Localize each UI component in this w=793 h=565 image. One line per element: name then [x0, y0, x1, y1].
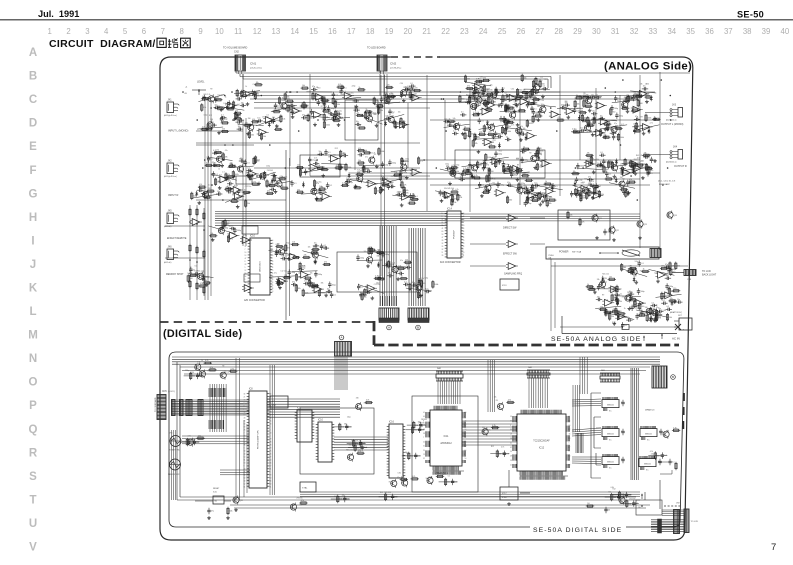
- capacitor C206: [667, 266, 675, 272]
- transistor Q61: [402, 478, 408, 487]
- svg-text:G: G: [29, 188, 38, 200]
- svg-text:47p: 47p: [212, 162, 215, 164]
- wire out R: [645, 154, 664, 156]
- capacitor C228: [651, 302, 657, 307]
- svg-text:47: 47: [245, 258, 247, 260]
- svg-text:11: 11: [442, 252, 444, 254]
- resistor R331: [602, 134, 610, 138]
- svg-text:0.1: 0.1: [481, 121, 484, 123]
- labels: [382, 173, 398, 180]
- capacitor C153: [615, 113, 623, 119]
- resistor R4: [234, 110, 242, 114]
- labels: [351, 440, 361, 443]
- wire: [305, 292, 331, 295]
- resistor R377: [196, 435, 204, 439]
- svg-text:100p: 100p: [576, 110, 580, 112]
- DIP DRAM SC4: [602, 397, 625, 413]
- wire: [392, 195, 418, 199]
- capacitor C252: [520, 131, 526, 136]
- svg-text:1k: 1k: [516, 167, 518, 169]
- svg-text:60: 60: [569, 456, 571, 458]
- wire cn4 drop: [335, 357, 347, 390]
- svg-text:10k: 10k: [493, 160, 496, 162]
- capacitor C240: [573, 108, 581, 114]
- svg-text:17: 17: [569, 447, 571, 449]
- transistor Q23: [637, 220, 647, 229]
- fuse cross: [675, 324, 681, 330]
- resistor R275: [660, 266, 668, 270]
- resistor R227: [198, 283, 206, 287]
- svg-text:10k: 10k: [256, 82, 259, 84]
- svg-text:560: 560: [672, 272, 675, 274]
- capacitor C104: [481, 87, 489, 93]
- svg-text:26: 26: [465, 420, 467, 422]
- svg-text:12: 12: [245, 285, 247, 287]
- svg-text:4.7k: 4.7k: [451, 165, 454, 167]
- capacitor C69: [342, 152, 348, 157]
- wire: [266, 181, 292, 185]
- svg-text:AC IN: AC IN: [672, 337, 680, 341]
- transistor Q37: [312, 250, 318, 259]
- capacitor C7: [291, 109, 297, 115]
- capacitor C75: [308, 157, 314, 163]
- svg-text:100p: 100p: [635, 261, 639, 263]
- capacitor C253: [551, 183, 557, 189]
- resistor R62: [579, 218, 585, 226]
- svg-text:2SC945: 2SC945: [296, 498, 302, 500]
- ground: [419, 294, 423, 298]
- wire cpu around bus: [270, 365, 274, 495]
- svg-text:220: 220: [661, 266, 664, 268]
- svg-text:4.7k: 4.7k: [314, 158, 317, 160]
- resistor R10: [286, 98, 294, 102]
- svg-text:C12 10u: C12 10u: [335, 111, 341, 113]
- svg-text:560: 560: [376, 101, 379, 103]
- svg-text:47p: 47p: [230, 162, 233, 164]
- ground: [613, 175, 617, 179]
- svg-text:10k: 10k: [380, 110, 383, 112]
- svg-text:4.7k: 4.7k: [621, 187, 624, 189]
- svg-text:10u: 10u: [591, 94, 594, 96]
- svg-text:1k: 1k: [313, 246, 315, 248]
- capacitor C189: [291, 282, 297, 287]
- labels: [597, 119, 615, 123]
- resistor R36: [378, 106, 384, 114]
- svg-text:220p: 220p: [456, 165, 460, 167]
- labels: [334, 495, 344, 498]
- wire: [301, 168, 327, 173]
- svg-text:X'TAL: X'TAL: [302, 487, 308, 490]
- svg-text:40: 40: [465, 441, 467, 443]
- resistor R199: [633, 128, 641, 132]
- svg-text:2SC945: 2SC945: [419, 422, 425, 424]
- wire: [238, 124, 264, 125]
- svg-text:0.1: 0.1: [534, 188, 537, 190]
- transistor Q22: [609, 226, 619, 235]
- capacitor C257: [620, 166, 626, 171]
- svg-text:R9: R9: [496, 400, 498, 402]
- transistor Q40: [416, 283, 422, 292]
- resistor R375: [385, 493, 391, 501]
- capacitor C79: [399, 169, 407, 175]
- wire: [507, 186, 533, 191]
- capacitor C102: [504, 104, 510, 109]
- svg-text:330: 330: [667, 294, 670, 296]
- connector CN4 from analog: [335, 342, 352, 357]
- op-amp IC3: [290, 108, 302, 115]
- svg-text:10k: 10k: [317, 165, 320, 167]
- op-amp IC19: [320, 193, 332, 200]
- resistor R329: [607, 123, 613, 131]
- wire horizontal run: [196, 199, 286, 201]
- svg-text:6.8k: 6.8k: [382, 97, 385, 99]
- ground: [604, 310, 608, 314]
- svg-text:0.1: 0.1: [501, 161, 504, 163]
- svg-text:10u: 10u: [217, 191, 220, 193]
- svg-text:56k: 56k: [364, 251, 367, 253]
- capacitor C122: [520, 149, 526, 154]
- svg-text:0.1: 0.1: [344, 87, 347, 89]
- ground: [219, 108, 223, 112]
- svg-text:10k: 10k: [584, 118, 587, 120]
- labels: [197, 360, 203, 364]
- diode D16: [648, 128, 651, 134]
- ground: [354, 184, 358, 188]
- svg-text:R45 2.2k: R45 2.2k: [469, 165, 476, 167]
- resistor R100: [316, 165, 324, 169]
- ground: [626, 192, 630, 196]
- capacitor C28: [311, 86, 317, 91]
- diode D31: [671, 300, 674, 306]
- wire qfp12 right bundle: [573, 385, 580, 432]
- svg-text:33k: 33k: [444, 188, 447, 190]
- capacitor C237: [473, 89, 479, 95]
- resistor R149: [466, 86, 474, 90]
- labels: [486, 121, 494, 127]
- ground: [461, 132, 465, 136]
- svg-text:47u: 47u: [451, 121, 454, 123]
- svg-text:42: 42: [465, 425, 467, 427]
- resistor R268: [432, 280, 439, 288]
- svg-text:0.1: 0.1: [540, 77, 542, 79]
- svg-text:7: 7: [272, 252, 273, 254]
- capacitor C151: [591, 111, 597, 116]
- svg-text:330: 330: [565, 101, 568, 103]
- transistor Q57: [497, 402, 503, 411]
- resistor R368: [618, 491, 624, 499]
- svg-text:330: 330: [356, 398, 359, 400]
- resistor R166: [477, 161, 483, 169]
- labels: [620, 292, 633, 298]
- op-amp IC13: [247, 171, 259, 178]
- svg-text:100p: 100p: [218, 99, 222, 101]
- capacitor C17: [220, 115, 226, 120]
- svg-text:1k: 1k: [597, 163, 599, 165]
- capacitor C259: [530, 194, 536, 199]
- resistor R41: [332, 97, 338, 105]
- ground: [324, 293, 328, 297]
- svg-text:TO CN BOARD: TO CN BOARD: [154, 397, 157, 412]
- wire rail 2: [240, 74, 551, 88]
- wire feedback loop: [337, 252, 417, 292]
- svg-text:10k: 10k: [530, 93, 533, 95]
- labels: [444, 188, 459, 191]
- resistor R183: [582, 95, 590, 99]
- resistor R26: [201, 96, 209, 100]
- wire: [608, 313, 634, 319]
- svg-text:330: 330: [406, 161, 409, 163]
- svg-text:560: 560: [623, 267, 626, 269]
- ground: [533, 166, 537, 170]
- resistor R167: [483, 161, 489, 169]
- transistor Q28: [586, 96, 592, 105]
- labels: [597, 274, 609, 282]
- transistor Q32: [619, 180, 625, 189]
- resistor R8: [233, 116, 241, 120]
- ground: [480, 194, 484, 198]
- wire: [591, 119, 617, 121]
- svg-text:100p: 100p: [318, 274, 322, 276]
- op-amp IC12: [232, 193, 244, 200]
- svg-text:220p: 220p: [352, 86, 356, 88]
- ground: [274, 190, 278, 194]
- svg-text:4.7k: 4.7k: [301, 500, 304, 502]
- wire: [321, 163, 347, 166]
- resistor R140: [486, 92, 494, 96]
- wire cpu bottom bus: [220, 470, 250, 475]
- svg-text:47k: 47k: [582, 195, 585, 197]
- capacitor C47: [226, 186, 232, 191]
- resistor R144: [502, 119, 510, 123]
- svg-text:47u: 47u: [400, 260, 403, 262]
- svg-text:10k: 10k: [302, 85, 305, 87]
- capacitor C110: [452, 130, 458, 135]
- resistor R6: [248, 131, 254, 139]
- svg-text:19: 19: [272, 270, 274, 272]
- labels: [609, 162, 627, 166]
- diode D25: [385, 262, 388, 268]
- svg-text:60: 60: [465, 412, 467, 414]
- capacitor C1: [224, 104, 230, 109]
- svg-text:22: 22: [463, 234, 465, 236]
- diode D24: [377, 262, 380, 268]
- svg-text:10u: 10u: [444, 118, 447, 120]
- labels: [483, 134, 496, 141]
- svg-text:47p: 47p: [665, 264, 668, 266]
- wire: [331, 498, 350, 500]
- capacitor C174: [229, 225, 235, 230]
- svg-text:EFFECT REMOTE: EFFECT REMOTE: [167, 238, 187, 240]
- svg-text:1k: 1k: [625, 99, 627, 101]
- diode D28: [633, 276, 636, 282]
- resistor R247: [304, 275, 312, 279]
- labels: [544, 183, 551, 188]
- resistor R145: [469, 130, 475, 138]
- resistor R204: [610, 107, 616, 115]
- capacitor C87: [409, 193, 417, 199]
- diode D20: [599, 161, 602, 167]
- capacitor C160: [599, 152, 605, 157]
- resistor R228: [203, 280, 211, 284]
- resistor R30: [364, 111, 371, 119]
- op-amp IC14: [218, 176, 230, 183]
- resistor R59: [385, 85, 393, 89]
- svg-text:IC17: IC17: [502, 493, 507, 495]
- capacitor C209: [640, 310, 648, 316]
- svg-text:0.1: 0.1: [361, 287, 364, 289]
- resistor R349: [580, 194, 586, 202]
- resistor R156: [538, 192, 544, 200]
- transistor Q24: [536, 191, 542, 200]
- diode D19: [615, 177, 618, 183]
- svg-text:31: 31: [423, 446, 425, 448]
- wire: [642, 311, 668, 317]
- svg-text:56k: 56k: [608, 491, 611, 493]
- capacitor C14: [244, 93, 250, 99]
- ground: [236, 114, 240, 118]
- svg-text:4.7k: 4.7k: [305, 275, 308, 277]
- wire: [511, 96, 537, 99]
- svg-text:JK3: JK3: [672, 104, 677, 107]
- resistor R95: [357, 160, 365, 164]
- svg-text:24: 24: [272, 279, 274, 281]
- resistor R288: [586, 284, 594, 288]
- op-amp direct sw: [506, 215, 518, 222]
- svg-text:220: 220: [245, 122, 248, 124]
- resistor R273: [675, 262, 681, 270]
- svg-text:100p: 100p: [500, 184, 504, 186]
- svg-text:2SC945: 2SC945: [584, 121, 590, 123]
- svg-text:47u: 47u: [365, 157, 368, 159]
- op-amp IC48: [602, 299, 614, 306]
- op-amp IC44: [365, 285, 377, 292]
- capacitor C44: [410, 94, 416, 100]
- resistor R274: [670, 268, 676, 276]
- svg-text:R12: R12: [493, 140, 496, 142]
- capacitor C43: [409, 83, 415, 88]
- resistor R263: [404, 259, 412, 263]
- capacitor C54: [211, 162, 217, 167]
- wire dram serpentine: [591, 393, 601, 478]
- resistor R248: [308, 279, 315, 287]
- capacitor C269: [418, 427, 424, 433]
- labels: [310, 283, 324, 288]
- capacitor C207: [664, 264, 670, 269]
- wire vertical run: [659, 72, 661, 250]
- svg-text:0.1: 0.1: [605, 281, 608, 283]
- svg-text:IC3: IC3: [357, 170, 360, 172]
- svg-text:0.1: 0.1: [530, 105, 533, 107]
- wire: [358, 284, 384, 293]
- resistor R202: [593, 116, 599, 124]
- resistor R17: [254, 92, 260, 100]
- svg-text:47k: 47k: [290, 108, 293, 110]
- wire: [595, 306, 621, 308]
- labels: [222, 150, 228, 159]
- op-amp IC61: [579, 185, 591, 192]
- capacitor C23: [355, 121, 361, 126]
- capacitor C120: [459, 176, 465, 181]
- wire horizontal run: [420, 159, 640, 161]
- svg-text:1k: 1k: [218, 169, 220, 171]
- resistor R22: [221, 120, 229, 124]
- svg-text:47k: 47k: [304, 255, 307, 257]
- svg-text:100p: 100p: [392, 162, 396, 164]
- op-amp IC1: [225, 102, 237, 109]
- resistor R182: [575, 95, 583, 99]
- wire lcd drop: [645, 480, 660, 509]
- diode D22: [203, 276, 206, 282]
- svg-text:560: 560: [298, 277, 301, 279]
- wire: [374, 102, 400, 105]
- svg-text:100p: 100p: [237, 230, 241, 232]
- svg-text:10k: 10k: [654, 273, 657, 275]
- capacitor C226: [666, 306, 672, 311]
- svg-text:IC3: IC3: [315, 95, 318, 97]
- svg-text:61: 61: [465, 437, 467, 439]
- ground: [218, 186, 222, 190]
- svg-text:560: 560: [371, 251, 374, 253]
- resistor R44: [334, 100, 340, 108]
- diode D9: [302, 182, 305, 188]
- resistor R208: [603, 165, 609, 173]
- ground: [588, 108, 592, 112]
- diode D29: [601, 276, 604, 282]
- svg-text:47u: 47u: [587, 99, 590, 101]
- svg-text:41: 41: [510, 464, 512, 466]
- wire: [198, 95, 224, 102]
- resistor R320: [556, 117, 564, 121]
- capacitor C143: [632, 95, 638, 101]
- capacitor C39: [390, 94, 396, 99]
- svg-text:31: 31: [245, 282, 247, 284]
- resistor R347: [518, 183, 524, 191]
- svg-text:10: 10: [463, 252, 465, 254]
- svg-text:10k: 10k: [373, 114, 376, 116]
- resistor R305: [482, 190, 490, 194]
- resistor R290: [605, 308, 611, 316]
- labels: [650, 451, 655, 455]
- svg-text:4.7k: 4.7k: [455, 189, 458, 191]
- svg-text:23: 23: [423, 454, 425, 456]
- resistor R175: [503, 165, 509, 173]
- resistor R218: [648, 166, 654, 174]
- transistor Q41: [619, 496, 625, 505]
- diode D26: [418, 278, 421, 284]
- transistor Q23: [454, 122, 460, 131]
- svg-text:7: 7: [423, 437, 424, 439]
- svg-text:TO LCD: TO LCD: [691, 521, 699, 523]
- svg-text:100p: 100p: [319, 247, 323, 249]
- svg-text:0.01: 0.01: [364, 403, 367, 405]
- resistor R177: [457, 193, 463, 201]
- resistor R209: [625, 189, 631, 197]
- resistor R356: [208, 367, 216, 371]
- svg-text:0.1: 0.1: [410, 83, 413, 85]
- transistor Q3: [207, 120, 213, 129]
- svg-text:100k: 100k: [487, 157, 491, 159]
- ground: [476, 112, 480, 116]
- ground: [400, 203, 404, 207]
- svg-text:9: 9: [244, 406, 245, 408]
- capacitor C16: [210, 122, 216, 127]
- svg-text:100p: 100p: [674, 428, 678, 430]
- resistor R27: [216, 106, 224, 110]
- svg-text:56k: 56k: [233, 165, 236, 167]
- svg-text:10k: 10k: [606, 176, 609, 178]
- svg-text:L: L: [29, 306, 36, 318]
- wire cpu left drops: [244, 420, 247, 497]
